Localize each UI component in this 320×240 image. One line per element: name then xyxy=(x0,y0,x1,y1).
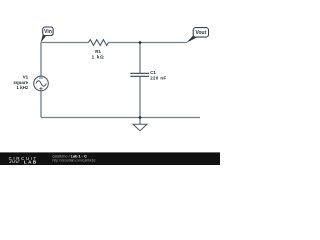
wire left vertical: corner to V1 top xyxy=(40,43,42,77)
wire left vertical: V1 bottom to bottom rail xyxy=(40,91,42,118)
node Vin flag tail xyxy=(41,34,47,43)
capacitor C1 bottom plate xyxy=(130,75,149,77)
footer logo waveform xyxy=(9,161,20,163)
ground xyxy=(133,124,147,130)
svg-text:1 kHz: 1 kHz xyxy=(16,85,29,90)
node junction top (C1/top rail) xyxy=(139,41,142,44)
svg-text:Vout: Vout xyxy=(196,30,207,36)
resistor R1 zigzag xyxy=(89,40,109,46)
svg-text:LAB: LAB xyxy=(24,160,38,165)
wire top: Vin corner to resistor xyxy=(41,42,89,44)
wire capacitor bottom lead xyxy=(139,76,141,117)
svg-text:R1: R1 xyxy=(95,49,101,54)
node Vin flag box xyxy=(43,27,53,36)
capacitor C1 top plate xyxy=(130,72,149,74)
wire top: resistor to Vout flag xyxy=(109,42,188,44)
svg-text:1 kΩ: 1 kΩ xyxy=(92,55,105,60)
svg-text:http://circuitlab.com/cahbk63: http://circuitlab.com/cahbk63 xyxy=(53,158,96,162)
V1 minus sign xyxy=(39,77,43,79)
node junction bottom (C1/bottom rail) xyxy=(139,116,142,119)
svg-text:square: square xyxy=(13,80,28,85)
node Vout flag tail xyxy=(186,35,197,43)
svg-text:220 nF: 220 nF xyxy=(150,75,166,80)
footer bar xyxy=(0,152,220,165)
svg-text:V1: V1 xyxy=(23,74,29,79)
node Vout flag box xyxy=(193,28,208,37)
svg-text:Vin: Vin xyxy=(44,29,52,35)
wire capacitor top lead xyxy=(139,43,141,74)
voltage source V1 circle xyxy=(34,76,49,91)
svg-text:C1: C1 xyxy=(150,70,156,75)
wire ground stub xyxy=(139,118,141,125)
wire bottom rail xyxy=(41,117,200,119)
V1 plus sign xyxy=(39,87,42,90)
V1 sine waveform xyxy=(36,81,46,86)
